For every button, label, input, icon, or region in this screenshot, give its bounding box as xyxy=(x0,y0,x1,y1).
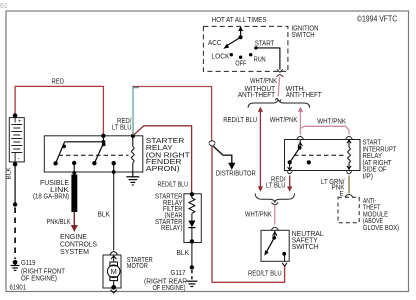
wire tap to distributor xyxy=(213,146,256,177)
svg-text:61901: 61901 xyxy=(10,283,27,292)
svg-text:(18 GA-BRN): (18 GA-BRN) xyxy=(33,194,69,201)
svg-text:RED/LT BLU: RED/LT BLU xyxy=(248,271,282,278)
svg-text:(RIGHT FRONT: (RIGHT FRONT xyxy=(21,268,66,275)
node ENGINE CONTROLS SYSTEM xyxy=(60,234,97,256)
anti-theft module xyxy=(338,194,399,232)
wire RED/LT BLU interrupt relay output xyxy=(266,176,292,192)
wire RED/LT BLU without anti-theft branch xyxy=(223,107,263,192)
svg-text:ACC: ACC xyxy=(208,40,222,47)
splice brace splitting branches xyxy=(248,100,310,108)
node WITHOUT ANTI-THEFT xyxy=(238,86,276,99)
svg-text:©1994 VFTC: ©1994 VFTC xyxy=(357,14,397,23)
svg-text:SWITCH: SWITCH xyxy=(292,32,315,39)
svg-text:MOTOR: MOTOR xyxy=(127,263,148,270)
diode in filter xyxy=(188,221,195,244)
start interrupt relay bottom pin arrows xyxy=(287,167,352,174)
svg-text:SYSTEM: SYSTEM xyxy=(60,249,89,256)
svg-text:WHT/PNK: WHT/PNK xyxy=(250,78,277,85)
svg-text:HOT AT ALL TIMES: HOT AT ALL TIMES xyxy=(212,17,267,24)
inline connector on RED/LT BLU run xyxy=(209,141,216,146)
svg-text:G117: G117 xyxy=(171,270,186,277)
svg-text:WHT/PNK: WHT/PNK xyxy=(317,119,346,126)
start interrupt relay coil xyxy=(347,140,351,171)
fusible link xyxy=(33,175,77,213)
wire WHT/PNK to interrupt relay coil xyxy=(300,119,349,135)
svg-text:BLK: BLK xyxy=(177,250,190,257)
svg-text:WHT/PNK: WHT/PNK xyxy=(270,117,298,124)
svg-text:LT BLU: LT BLU xyxy=(112,125,132,132)
svg-text:LT BLU: LT BLU xyxy=(266,183,286,190)
wire PNK/BLK arrow to engine controls xyxy=(47,212,78,232)
svg-text:SWITCH: SWITCH xyxy=(292,244,319,251)
node WITH ANTI-THEFT xyxy=(286,86,323,99)
wire WHT/PNK to neutral safety switch xyxy=(245,205,275,225)
wire BLK relay to starter motor xyxy=(98,172,114,251)
svg-text:CONTROLS: CONTROLS xyxy=(60,241,97,248)
wire START terminal xyxy=(258,48,280,70)
connector at ignition switch output xyxy=(277,69,284,77)
wire WHT/PNK with anti-theft branch xyxy=(270,107,303,135)
svg-text:PNK/BLK: PNK/BLK xyxy=(47,219,71,226)
wire LT GRN/PNK to anti-theft module xyxy=(321,176,349,198)
svg-text:61: 61 xyxy=(0,3,8,10)
svg-text:BLK: BLK xyxy=(6,167,13,180)
starter relay internal contacts xyxy=(53,134,128,175)
svg-text:RED/LT BLU: RED/LT BLU xyxy=(158,181,189,188)
ignition switch rotor arrow xyxy=(223,26,243,49)
svg-text:RED/LT BLU: RED/LT BLU xyxy=(223,117,257,124)
svg-text:WHT/PNK: WHT/PNK xyxy=(245,212,272,219)
connector arrow into NSS xyxy=(271,227,278,238)
svg-text:RUN: RUN xyxy=(254,57,266,64)
wire WHT/PNK ignition to split xyxy=(250,77,280,96)
ground G119 xyxy=(11,260,66,283)
svg-text:-: - xyxy=(18,157,20,163)
starter motor M1 xyxy=(103,252,153,293)
splice brace merging branches xyxy=(255,194,294,205)
start interrupt relay box xyxy=(285,139,398,180)
starter relay coil xyxy=(131,134,135,172)
start interrupt relay switch xyxy=(288,140,344,171)
wire RED battery to starter relay xyxy=(15,78,103,135)
start interrupt relay pin arrows top xyxy=(297,136,352,139)
neutral safety switch contacts xyxy=(264,236,287,266)
svg-text:M: M xyxy=(111,267,117,276)
wire RED/LT BLU from NSS to relay coil (top run) xyxy=(132,87,211,142)
svg-text:LOCK: LOCK xyxy=(211,54,229,61)
wire BLK filter to ground xyxy=(177,243,195,281)
svg-text:E: E xyxy=(340,191,344,198)
svg-text:RELAY): RELAY) xyxy=(161,225,183,232)
svg-text:BLK: BLK xyxy=(98,212,111,219)
ground G117 xyxy=(144,270,197,292)
svg-text:ANTI-THEFT: ANTI-THEFT xyxy=(286,92,323,99)
svg-text:RED: RED xyxy=(52,78,65,85)
neutral safety switch box xyxy=(261,230,324,261)
ground at starter relay coil xyxy=(126,172,139,185)
svg-text:G119: G119 xyxy=(21,260,36,267)
svg-text:OF ENGINE): OF ENGINE) xyxy=(21,275,57,282)
svg-text:I/P): I/P) xyxy=(363,173,374,180)
ignition switch position contacts xyxy=(208,40,275,68)
starter relay filter box xyxy=(155,181,201,242)
resistor in filter xyxy=(189,192,195,220)
svg-text:ENGINE: ENGINE xyxy=(60,234,87,241)
svg-text:ANTI-THEFT: ANTI-THEFT xyxy=(238,92,276,99)
wire RED/LT BLU (teal) down to relay coil xyxy=(112,88,139,135)
svg-text:DISTRIBUTOR: DISTRIBUTOR xyxy=(216,170,256,177)
splice split symbol xyxy=(275,98,281,101)
battery B1 xyxy=(9,113,24,166)
starter relay K1 box xyxy=(44,136,190,173)
svg-text:OFF: OFF xyxy=(235,61,246,68)
svg-text:OF ENGINE): OF ENGINE) xyxy=(153,285,186,292)
svg-text:START: START xyxy=(255,41,275,48)
svg-text:GLOVE BOX): GLOVE BOX) xyxy=(363,225,399,232)
svg-text:APRON): APRON) xyxy=(146,164,180,173)
ignition switch dashed box xyxy=(203,17,318,71)
wire RED/LT BLU relay to filter xyxy=(134,126,192,194)
wire BLK battery to ground xyxy=(6,166,18,259)
wire RED/LT BLU NSS output to relay coil run xyxy=(212,146,285,282)
